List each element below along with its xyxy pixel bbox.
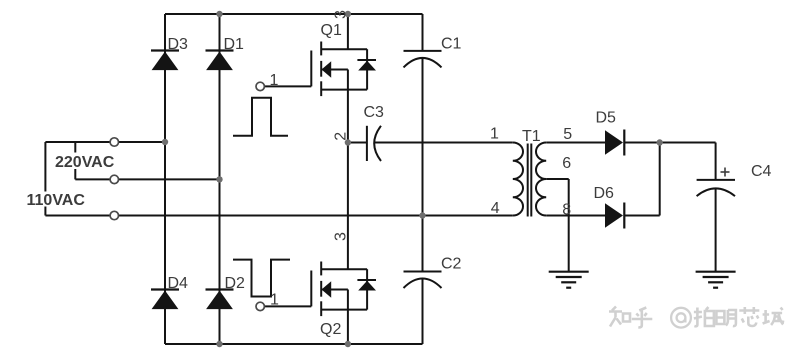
svg-text:T1: T1: [522, 128, 541, 145]
svg-text:Q1: Q1: [321, 22, 342, 39]
svg-text:1: 1: [270, 72, 279, 89]
svg-text:3: 3: [333, 10, 350, 19]
svg-text:110VAC: 110VAC: [27, 192, 86, 209]
svg-text:C2: C2: [441, 256, 462, 273]
svg-text:2: 2: [333, 132, 350, 141]
svg-text:1: 1: [270, 292, 279, 309]
svg-text:C1: C1: [441, 36, 462, 53]
svg-text:D5: D5: [596, 110, 617, 127]
svg-text:8: 8: [562, 202, 571, 219]
svg-text:6: 6: [562, 155, 571, 172]
svg-text:Q2: Q2: [320, 321, 341, 338]
svg-text:D6: D6: [594, 185, 615, 202]
svg-text:1: 1: [490, 126, 499, 143]
svg-text:220VAC: 220VAC: [55, 154, 115, 171]
svg-text:3: 3: [333, 232, 350, 241]
svg-text:5: 5: [563, 126, 572, 143]
svg-text:D2: D2: [225, 275, 246, 292]
svg-text:4: 4: [491, 200, 500, 217]
svg-text:C4: C4: [751, 163, 772, 180]
svg-text:D4: D4: [168, 275, 189, 292]
svg-text:C3: C3: [364, 104, 385, 121]
svg-text:D1: D1: [224, 36, 245, 53]
svg-text:D3: D3: [168, 36, 189, 53]
